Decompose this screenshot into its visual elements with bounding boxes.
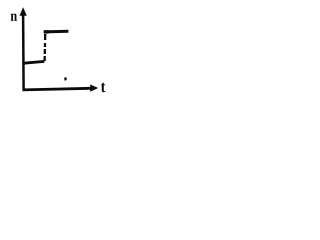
label n (vertical axis): [11, 14, 17, 21]
t-axis (horizontal): [23, 88, 91, 90]
upper step segment: [44, 30, 69, 34]
background: [0, 0, 144, 108]
y-axis arrowhead: [20, 7, 27, 16]
t-axis arrowhead: [90, 85, 98, 92]
lower step segment (from y-axis): [24, 61, 44, 63]
dashed riser: [43, 34, 46, 62]
small comma mark near t-axis: [64, 77, 67, 80]
label t (horizontal axis): [101, 83, 105, 93]
y-axis shaft: [22, 14, 25, 91]
upper step corner blob: [44, 30, 49, 33]
